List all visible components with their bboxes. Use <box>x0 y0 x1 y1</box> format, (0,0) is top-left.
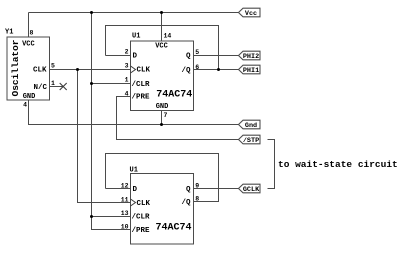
clock triangle FF1 pin3 <box>131 66 136 73</box>
svg-text:PHI2: PHI2 <box>243 53 259 61</box>
junction dot /Q1 to PHI1 and feedback <box>217 68 220 71</box>
svg-text:9: 9 <box>195 183 199 190</box>
svg-text:13: 13 <box>121 210 129 217</box>
flip-flop U1B body <box>131 174 194 245</box>
junction dot /CLR1 tap <box>90 82 93 85</box>
junction dot ground rail / pin7 <box>160 123 163 126</box>
wire Vcc top rail <box>29 12 239 14</box>
svg-text:Q: Q <box>186 186 191 194</box>
clock triangle FF2 pin11 <box>131 199 136 206</box>
svg-text:4: 4 <box>23 102 27 109</box>
svg-text:74AC74: 74AC74 <box>156 89 192 100</box>
svg-text:/Q: /Q <box>181 67 191 75</box>
terminal tag Vcc <box>239 8 261 18</box>
svg-text:GND: GND <box>156 103 169 111</box>
svg-text:10: 10 <box>121 224 129 231</box>
svg-text:U1: U1 <box>132 33 140 41</box>
wire oscillator GND pin4 to ground rail <box>29 100 239 125</box>
svg-text:Oscillator: Oscillator <box>10 39 21 96</box>
wire FF1 /Q pin6 to PHI1 with feedback to D <box>194 69 239 71</box>
svg-text:74AC74: 74AC74 <box>155 223 191 234</box>
svg-text:D: D <box>133 53 138 61</box>
svg-text:U1: U1 <box>130 167 138 175</box>
svg-text:CLK: CLK <box>137 67 151 75</box>
svg-text:8: 8 <box>195 196 199 203</box>
terminal tag Gnd <box>239 120 261 130</box>
svg-text:Vcc: Vcc <box>245 10 257 18</box>
svg-text:VCC: VCC <box>22 41 35 49</box>
junction dot CLK branch <box>76 68 79 71</box>
svg-text:VCC: VCC <box>155 43 168 51</box>
svg-text:7: 7 <box>164 112 168 119</box>
terminal tag /STP <box>239 135 261 145</box>
terminal tag GCLK <box>239 184 261 194</box>
svg-text:8: 8 <box>30 30 34 37</box>
wire oscillator CLK to FF1 pin3 <box>50 69 131 71</box>
svg-text:1: 1 <box>125 77 129 84</box>
wire FF1 Q pin5 to PHI2 <box>194 55 239 57</box>
oscillator Y1 body <box>7 37 50 100</box>
wire oscillator N/C stub <box>50 86 64 88</box>
svg-text:/PRE: /PRE <box>132 227 151 235</box>
svg-text:1: 1 <box>51 80 55 87</box>
terminal tag PHI1 <box>239 65 261 75</box>
svg-text:6: 6 <box>195 64 199 71</box>
svg-text:12: 12 <box>121 183 129 190</box>
wire FF2 /Q pin8 feedback to D <box>106 154 219 202</box>
svg-text:to wait-state circuit: to wait-state circuit <box>278 159 398 170</box>
svg-text:4: 4 <box>125 91 129 98</box>
no-connect X on oscillator pin 1 <box>60 83 67 90</box>
svg-text:/PRE: /PRE <box>132 94 151 102</box>
wire FF1 /PRE pin4 to /STP <box>117 97 239 140</box>
wire bracket to wait-state circuit <box>268 140 275 189</box>
svg-text:Gnd: Gnd <box>245 122 257 130</box>
svg-text:Q: Q <box>186 53 191 61</box>
svg-text:/CLR: /CLR <box>132 214 151 222</box>
svg-text:14: 14 <box>164 33 172 40</box>
wire Vcc drop to /CLR1, /CLR2, /PRE2 <box>92 13 131 230</box>
svg-text:5: 5 <box>195 49 199 56</box>
svg-text:D: D <box>133 186 138 194</box>
svg-text:11: 11 <box>121 197 129 204</box>
wire FF2 Q pin9 to GCLK <box>194 188 239 190</box>
svg-text:Y1: Y1 <box>5 29 13 37</box>
svg-text:/STP: /STP <box>243 137 259 145</box>
wire oscillator pin8 riser <box>28 13 30 38</box>
svg-text:/Q: /Q <box>181 199 191 207</box>
svg-text:/CLR: /CLR <box>132 81 151 89</box>
wire FF1 pin7 GND drop <box>161 111 163 125</box>
svg-text:CLK: CLK <box>137 200 151 208</box>
terminal tag PHI2 <box>239 51 261 61</box>
wire FF1 pin14 VCC drop <box>161 13 163 42</box>
wire /CLR2 (Vcc to FF2 pin13) <box>92 216 131 218</box>
junction dot /CLR2 tap <box>90 215 93 218</box>
wire CLK branch to FF2 pin11 <box>78 70 131 203</box>
svg-text:PHI1: PHI1 <box>243 67 259 75</box>
flip-flop U1A body <box>131 41 194 111</box>
svg-text:N/C: N/C <box>33 84 47 92</box>
svg-text:CLK: CLK <box>33 67 47 75</box>
wire /CLR1 (Vcc to FF1 pin1) <box>92 83 131 85</box>
svg-text:GND: GND <box>23 93 36 101</box>
junction dot Vcc rail / pin14 drop <box>160 11 163 14</box>
wire FF2 D pin12 <box>106 188 131 190</box>
svg-text:3: 3 <box>125 63 129 70</box>
svg-text:2: 2 <box>125 49 129 56</box>
junction dot Vcc rail / Vcc drop <box>90 11 93 14</box>
svg-text:5: 5 <box>51 63 55 70</box>
wire FF1 D pin2 <box>106 55 131 57</box>
svg-text:GCLK: GCLK <box>243 186 260 194</box>
